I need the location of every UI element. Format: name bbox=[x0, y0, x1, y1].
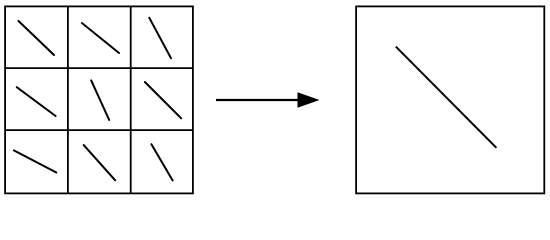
segment cell row1 col1 bbox=[18, 21, 54, 55]
grid horizontal line 2 bbox=[5, 129, 193, 131]
segment cell row1 col3 bbox=[149, 18, 171, 58]
grid horizontal line 1 bbox=[5, 67, 193, 69]
segment cell row1 col2 bbox=[82, 23, 119, 53]
segment cell row3 col1 bbox=[14, 150, 56, 172]
segment cell row3 col3 bbox=[151, 144, 172, 180]
segment cell row2 col3 bbox=[145, 82, 181, 118]
output diagonal segment bbox=[396, 47, 495, 147]
segment cell row2 col1 bbox=[17, 87, 56, 116]
grid vertical line 2 bbox=[130, 6, 132, 193]
3x3 grid outer border bbox=[5, 6, 193, 193]
arrow head bbox=[298, 92, 320, 107]
output square border bbox=[356, 6, 544, 193]
grid vertical line 1 bbox=[67, 6, 69, 193]
segment cell row3 col2 bbox=[84, 145, 116, 180]
segment cell row2 col2 bbox=[91, 80, 109, 120]
arrow shaft bbox=[216, 99, 299, 101]
